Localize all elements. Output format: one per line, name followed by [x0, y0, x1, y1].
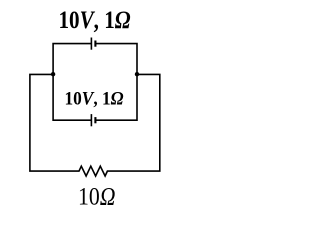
svg-text:10V, 1Ω: 10V, 1Ω: [59, 5, 131, 34]
svg-text:10Ω: 10Ω: [78, 184, 116, 209]
svg-text:10V, 1Ω: 10V, 1Ω: [65, 90, 124, 110]
